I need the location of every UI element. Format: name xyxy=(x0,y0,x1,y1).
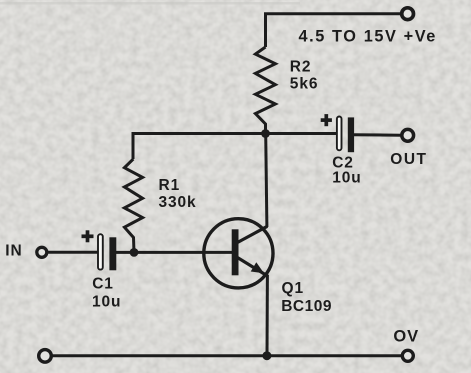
svg-text:10u: 10u xyxy=(92,293,121,310)
svg-text:Q1: Q1 xyxy=(282,280,304,297)
svg-text:OUT: OUT xyxy=(390,151,427,168)
svg-text:IN: IN xyxy=(5,243,22,260)
svg-text:5k6: 5k6 xyxy=(290,75,319,92)
svg-text:C1: C1 xyxy=(92,276,114,293)
svg-text:10u: 10u xyxy=(332,170,361,187)
svg-text:R1: R1 xyxy=(159,177,181,194)
svg-text:R2: R2 xyxy=(290,59,312,76)
svg-text:BC109: BC109 xyxy=(281,298,332,315)
svg-text:330k: 330k xyxy=(159,194,197,211)
svg-text:4.5 TO 15V +Ve: 4.5 TO 15V +Ve xyxy=(299,28,437,46)
svg-text:OV: OV xyxy=(393,328,419,346)
